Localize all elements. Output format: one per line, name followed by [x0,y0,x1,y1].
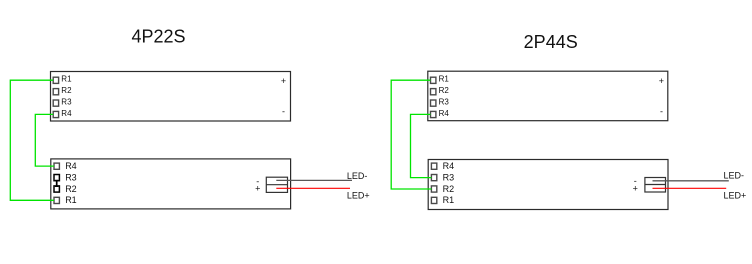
green wire top R4 to bottom R3 (2P44S) [411,114,432,177]
pad R3 top box right diagram [431,100,436,106]
svg-text:R1: R1 [443,195,455,205]
wire LED- (gray) from J1 [276,179,352,181]
connector J1 (2P44S) [645,178,666,193]
svg-text:R3: R3 [443,172,455,182]
svg-text:R1: R1 [439,75,450,84]
pad R4 top box left [53,111,58,117]
pad R1 bottom box right diagram [431,197,436,203]
pad R4 top box right diagram [431,111,436,117]
svg-text:R3: R3 [65,172,77,182]
svg-text:R1: R1 [65,195,77,205]
wire LED+ (red) from J1 right [653,187,727,189]
svg-text:-: - [282,106,285,116]
svg-text:+: + [659,76,664,86]
pad R4 bottom box right diagram [431,163,436,169]
svg-text:LED+: LED+ [347,191,370,201]
LED module box (bottom, 4P22S) [51,159,291,209]
svg-text:R1: R1 [61,75,72,84]
svg-text:LED-: LED- [347,171,368,181]
svg-text:+: + [633,184,638,194]
svg-text:+: + [281,76,286,86]
wire LED+ (red) from J1 [276,187,350,189]
svg-text:R2: R2 [61,86,72,95]
pad R2 bottom box (jumpered) [54,186,59,192]
svg-text:2P44S: 2P44S [524,32,578,52]
pad R2 top box right diagram [431,89,436,95]
pad R1 top box right diagram [431,77,436,83]
svg-text:R3: R3 [61,97,72,106]
svg-text:R3: R3 [439,97,450,106]
svg-text:R2: R2 [65,184,77,194]
svg-text:R2: R2 [443,184,455,194]
svg-text:LED+: LED+ [724,190,747,200]
wire LED- (gray) from J1 right [653,180,729,182]
green wire top R4 to bottom R4 (4P22S) [35,114,54,166]
pad R1 bottom box [54,197,59,203]
pad R1 top box left [53,77,58,83]
pad R3 bottom box (jumpered) [54,175,59,181]
pad R2 top box left [53,89,58,95]
LED module box (bottom, 2P44S) [428,160,668,210]
pad R3 bottom box right diagram [431,175,436,181]
svg-text:4P22S: 4P22S [131,26,185,46]
pad R2 bottom box right diagram [431,186,436,192]
svg-text:R4: R4 [65,161,77,171]
svg-text:R4: R4 [61,109,72,118]
jumper link R3-R2 [55,180,58,187]
connector J1 (4P22S) [266,177,287,192]
pad R3 top box left [53,100,58,106]
svg-text:R4: R4 [439,109,450,118]
svg-text:R4: R4 [443,161,455,171]
green wire top R1 to bottom R1 (4P22S) [10,80,54,200]
driver output box (top, 2P44S) [428,71,668,121]
svg-text:LED-: LED- [724,171,745,181]
pad R4 bottom box [54,163,59,169]
driver output box (top, 4P22S) [51,72,291,122]
svg-text:+: + [255,184,260,194]
svg-text:-: - [660,106,663,116]
svg-text:R2: R2 [439,86,450,95]
green wire top R1 to bottom R2 (2P44S) [391,80,431,189]
